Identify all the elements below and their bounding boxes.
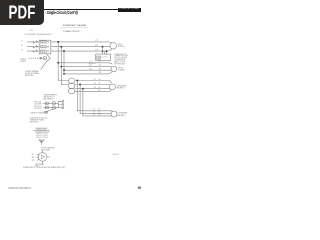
svg-text:MOTORS ONLY: MOTORS ONLY xyxy=(114,63,125,65)
svg-text:CT DISCONNECT SW (FUSED) N: CT DISCONNECT SW (FUSED) NOTE 8 xyxy=(24,34,52,36)
svg-text:SEE NOTE 5: SEE NOTE 5 xyxy=(30,121,39,123)
svg-text:1T3: 1T3 xyxy=(32,160,35,162)
svg-text:1T1: 1T1 xyxy=(32,154,35,156)
svg-text:POWER FACTOR: POWER FACTOR xyxy=(114,53,127,56)
svg-text:L2: L2 xyxy=(21,45,23,47)
svg-text:3FU CTRL: 3FU CTRL xyxy=(34,106,41,108)
svg-text:2 3.2 2.8 1.7 1.4 1.1: 2 3.2 2.8 1.7 1.4 1.1 xyxy=(36,133,49,135)
svg-text:2T1: 2T1 xyxy=(89,61,92,63)
svg-text:ELEMENTARY DIAGRAM: ELEMENTARY DIAGRAM xyxy=(63,24,87,27)
svg-text:43: 43 xyxy=(99,87,101,89)
svg-text:2T3: 2T3 xyxy=(89,69,92,71)
svg-text:1DS: 1DS xyxy=(30,30,33,32)
svg-text:POWER: POWER xyxy=(20,59,27,61)
svg-text:2T3: 2T3 xyxy=(99,69,102,71)
svg-text:4T1: 4T1 xyxy=(98,109,101,111)
svg-text:1T2: 1T2 xyxy=(32,157,35,159)
svg-text:L1: L1 xyxy=(21,40,23,42)
svg-text:42: 42 xyxy=(99,83,101,85)
svg-text:SEE U.L. NOTE: SEE U.L. NOTE xyxy=(114,61,125,63)
svg-text:GND LUG: GND LUG xyxy=(38,139,44,141)
svg-text:4T2: 4T2 xyxy=(98,112,101,114)
svg-text:51: 51 xyxy=(93,109,95,111)
svg-text:L3: L3 xyxy=(21,50,23,52)
svg-text:41: 41 xyxy=(99,79,101,81)
svg-text:TRANSFORMER T1: TRANSFORMER T1 xyxy=(44,93,58,96)
svg-text:1T1: 1T1 xyxy=(95,40,98,42)
svg-text:1 200 230 380 460 575: 1 200 230 380 460 575 xyxy=(35,131,50,133)
svg-text:T: T xyxy=(49,157,50,159)
svg-text:SEE NOTES 2,3: SEE NOTES 2,3 xyxy=(44,96,55,98)
svg-text:MTR 2: MTR 2 xyxy=(118,67,123,69)
svg-text:4 3.2 2.8 1.7 1.4 1.1: 4 3.2 2.8 1.7 1.4 1.1 xyxy=(36,137,49,139)
svg-text:POWER CIRCUIT: POWER CIRCUIT xyxy=(63,31,80,33)
svg-text:24V SUPPLY: 24V SUPPLY xyxy=(34,108,42,110)
svg-text:(COMP 1): (COMP 1) xyxy=(118,46,125,48)
svg-text:POWER TERMINAL: POWER TERMINAL xyxy=(25,70,39,73)
svg-text:44: 44 xyxy=(99,90,101,92)
svg-text:1T3: 1T3 xyxy=(95,49,98,51)
svg-text:LD04533: LD04533 xyxy=(112,154,119,156)
svg-text:CONDENSER: CONDENSER xyxy=(118,113,129,115)
svg-text:2T2: 2T2 xyxy=(89,65,92,67)
svg-text:X3: X3 xyxy=(94,87,96,89)
svg-text:1C 2C 3C: 1C 2C 3C xyxy=(102,57,108,59)
svg-text:X1: X1 xyxy=(94,79,96,81)
svg-text:WYE DELTA CLOSE: WYE DELTA CLOSE xyxy=(30,117,44,120)
svg-text:115V SUPPLY: 115V SUPPLY xyxy=(34,104,42,106)
svg-text:2FU CTRL: 2FU CTRL xyxy=(34,102,41,104)
svg-text:SUPPLY: SUPPLY xyxy=(20,61,26,63)
svg-text:POWER CIRCUIT - WYE DELTA: POWER CIRCUIT - WYE DELTA CLOSE TRANSITI… xyxy=(23,166,66,169)
svg-text:53: 53 xyxy=(93,114,95,116)
svg-text:4T3: 4T3 xyxy=(98,114,101,116)
svg-text:2T4: 2T4 xyxy=(99,72,102,74)
svg-text:COMPRESSOR: COMPRESSOR xyxy=(114,60,126,62)
svg-text:MTR 1: MTR 1 xyxy=(118,44,123,46)
svg-text:2T1: 2T1 xyxy=(99,61,102,63)
svg-text:52: 52 xyxy=(93,112,95,114)
svg-text:CONDENSER: CONDENSER xyxy=(117,85,128,87)
svg-text:3 3.2 2.8 1.7 1.4 1.1: 3 3.2 2.8 1.7 1.4 1.1 xyxy=(36,135,49,137)
svg-text:CONTROL POWER: CONTROL POWER xyxy=(30,112,44,114)
svg-text:X2: X2 xyxy=(94,83,96,85)
svg-text:1T2: 1T2 xyxy=(95,45,98,47)
svg-text:2T2: 2T2 xyxy=(99,65,102,67)
svg-text:(COMP 2): (COMP 2) xyxy=(118,70,125,72)
svg-text:FOR 1ST CIRCUIT: FOR 1ST CIRCUIT xyxy=(114,58,127,60)
svg-text:MOTOR TERMINAL: MOTOR TERMINAL xyxy=(41,147,55,150)
svg-text:SEE NOTE 4: SEE NOTE 4 xyxy=(25,75,34,77)
